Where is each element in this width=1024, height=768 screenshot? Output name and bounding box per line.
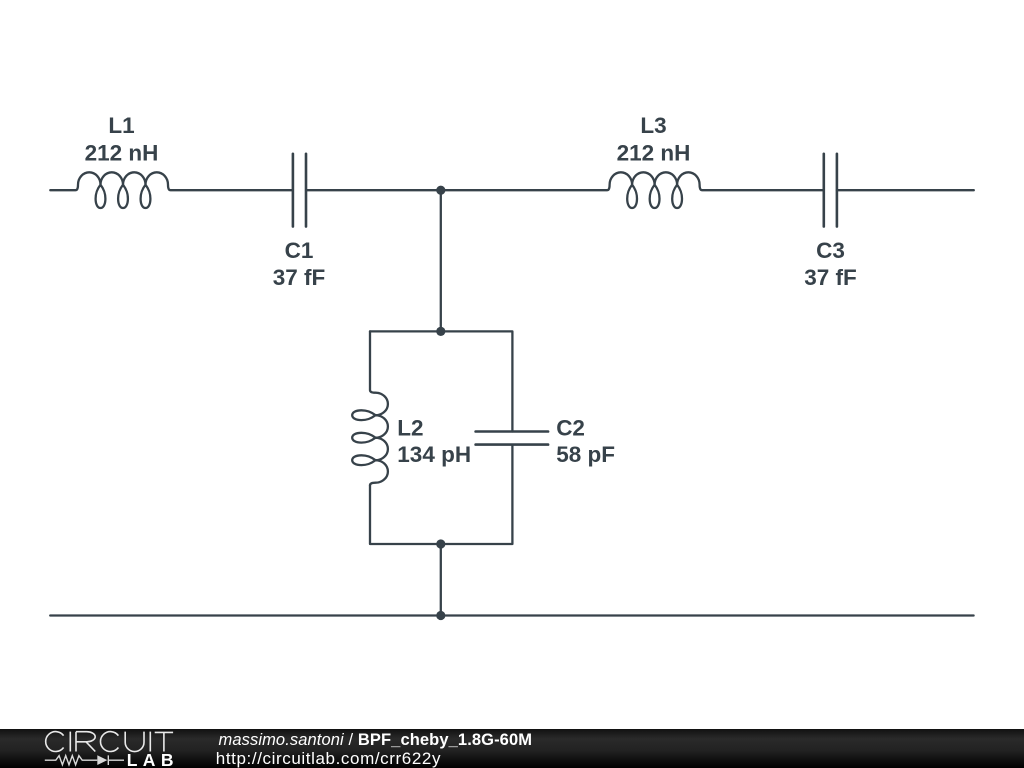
svg-text:C3: C3 bbox=[816, 238, 845, 263]
svg-text:37 fF: 37 fF bbox=[804, 265, 857, 290]
svg-text:C2: C2 bbox=[556, 416, 585, 441]
svg-text:212 nH: 212 nH bbox=[617, 140, 691, 165]
svg-text:C1: C1 bbox=[285, 238, 314, 263]
svg-text:L2: L2 bbox=[397, 416, 423, 441]
svg-text:LAB: LAB bbox=[127, 750, 179, 768]
svg-text:212 nH: 212 nH bbox=[85, 140, 159, 165]
svg-text:http://circuitlab.com/crr622y: http://circuitlab.com/crr622y bbox=[216, 749, 441, 768]
svg-text:37 fF: 37 fF bbox=[273, 265, 326, 290]
svg-text:L1: L1 bbox=[108, 113, 134, 138]
svg-text:massimo.santoni / BPF_cheby_1.: massimo.santoni / BPF_cheby_1.8G-60M bbox=[219, 731, 533, 749]
svg-text:134 pH: 134 pH bbox=[397, 442, 471, 467]
svg-text:58 pF: 58 pF bbox=[556, 442, 615, 467]
svg-text:L3: L3 bbox=[640, 113, 666, 138]
